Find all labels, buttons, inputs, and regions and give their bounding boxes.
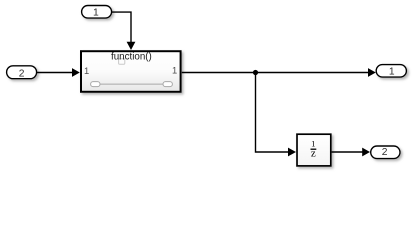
outport Out2 [371, 146, 400, 159]
svg-text:1: 1 [172, 65, 177, 76]
svg-text:2: 2 [19, 68, 25, 79]
content preview wire [100, 83, 163, 85]
outport Out1 [376, 65, 406, 78]
svg-text:1: 1 [84, 65, 89, 76]
svg-text:function(): function() [111, 52, 152, 63]
content preview inport pill [91, 82, 100, 87]
wire function output to Out1 [182, 68, 376, 77]
inport In1 [82, 6, 112, 19]
wire In1 to trigger port of function block [112, 12, 136, 50]
wire In2 to function block input port 1 [37, 68, 80, 77]
svg-text:1: 1 [389, 66, 395, 77]
unit delay label 1/z [311, 139, 317, 160]
svg-text:z: z [311, 148, 316, 160]
unit delay block 1/z [297, 134, 331, 166]
wire junction to Unit Delay [256, 73, 297, 157]
junction dot [253, 70, 258, 75]
inport In2 [7, 66, 37, 80]
wire Unit Delay to Out2 [332, 148, 370, 157]
content preview outport pill [163, 82, 172, 87]
svg-text:1: 1 [93, 8, 99, 19]
svg-text:2: 2 [382, 147, 388, 158]
Simulink Function block U1 [81, 51, 181, 92]
trigger port icon [119, 59, 125, 64]
